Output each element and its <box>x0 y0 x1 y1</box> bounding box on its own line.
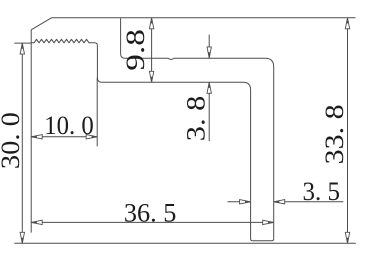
bar left edge <box>251 90 253 241</box>
3.8 down arrow at plate top <box>207 47 211 58</box>
dim 33.8 dimension line <box>347 18 349 244</box>
dim 3.8 lower leader <box>208 82 210 141</box>
dim 9.8 dimension line <box>151 18 153 83</box>
svg-text:10. 0: 10. 0 <box>44 111 93 140</box>
dim 30.0 vertical dimension line <box>21 43 23 243</box>
arrowheads <box>20 18 350 244</box>
svg-text:3. 5: 3. 5 <box>303 177 341 206</box>
3.5 right-pointing arrow at bar left <box>240 200 251 204</box>
dim 3.5 right leader <box>274 201 344 203</box>
9.8 up arrow <box>149 18 153 29</box>
9.8 down arrow <box>149 71 153 82</box>
right edge of serrated block down to plate fillet <box>97 46 102 83</box>
33.8 up arrow <box>345 18 349 29</box>
33.8 down arrow <box>345 232 349 243</box>
svg-text:33. 8: 33. 8 <box>320 104 349 164</box>
step right edge of top block <box>120 18 122 54</box>
dim 10.0 right extension line <box>96 78 98 147</box>
dimension texts <box>0 29 349 227</box>
top edge of profile with extension line to the right <box>52 17 356 19</box>
bar bottom edge <box>253 239 274 241</box>
36.5 right arrow <box>263 220 274 224</box>
left wall edge with extension overshoot down <box>30 30 32 233</box>
dim 10.0 dimension line <box>31 136 97 138</box>
bar right edge up to plate top fillet <box>265 58 274 239</box>
dim 30.0 top extension tick <box>14 42 31 44</box>
3.8 up arrow at plate bottom <box>207 82 211 93</box>
plate bottom edge <box>102 82 251 90</box>
30.0 up arrow <box>20 43 24 54</box>
dim 36.5 dimension line <box>31 221 274 223</box>
36.5 left arrow <box>31 220 42 224</box>
serrated clamp surface <box>31 39 97 45</box>
dim 3.5 left leader <box>228 201 251 203</box>
chamfer top-left corner <box>31 18 51 30</box>
dim 3.8 upper leader <box>208 35 210 58</box>
shared bottom extension line <box>14 242 356 244</box>
svg-text:3. 8: 3. 8 <box>181 96 210 142</box>
plate top edge with small notch bump <box>121 54 266 60</box>
svg-text:30. 0: 30. 0 <box>0 112 25 169</box>
10.0 left arrow <box>31 135 42 139</box>
10.0 right arrow <box>86 135 97 139</box>
3.5 left-pointing arrow at bar right <box>274 200 285 204</box>
svg-text:9.8: 9.8 <box>120 29 150 71</box>
svg-text:36. 5: 36. 5 <box>124 198 176 227</box>
30.0 down arrow <box>20 232 24 243</box>
